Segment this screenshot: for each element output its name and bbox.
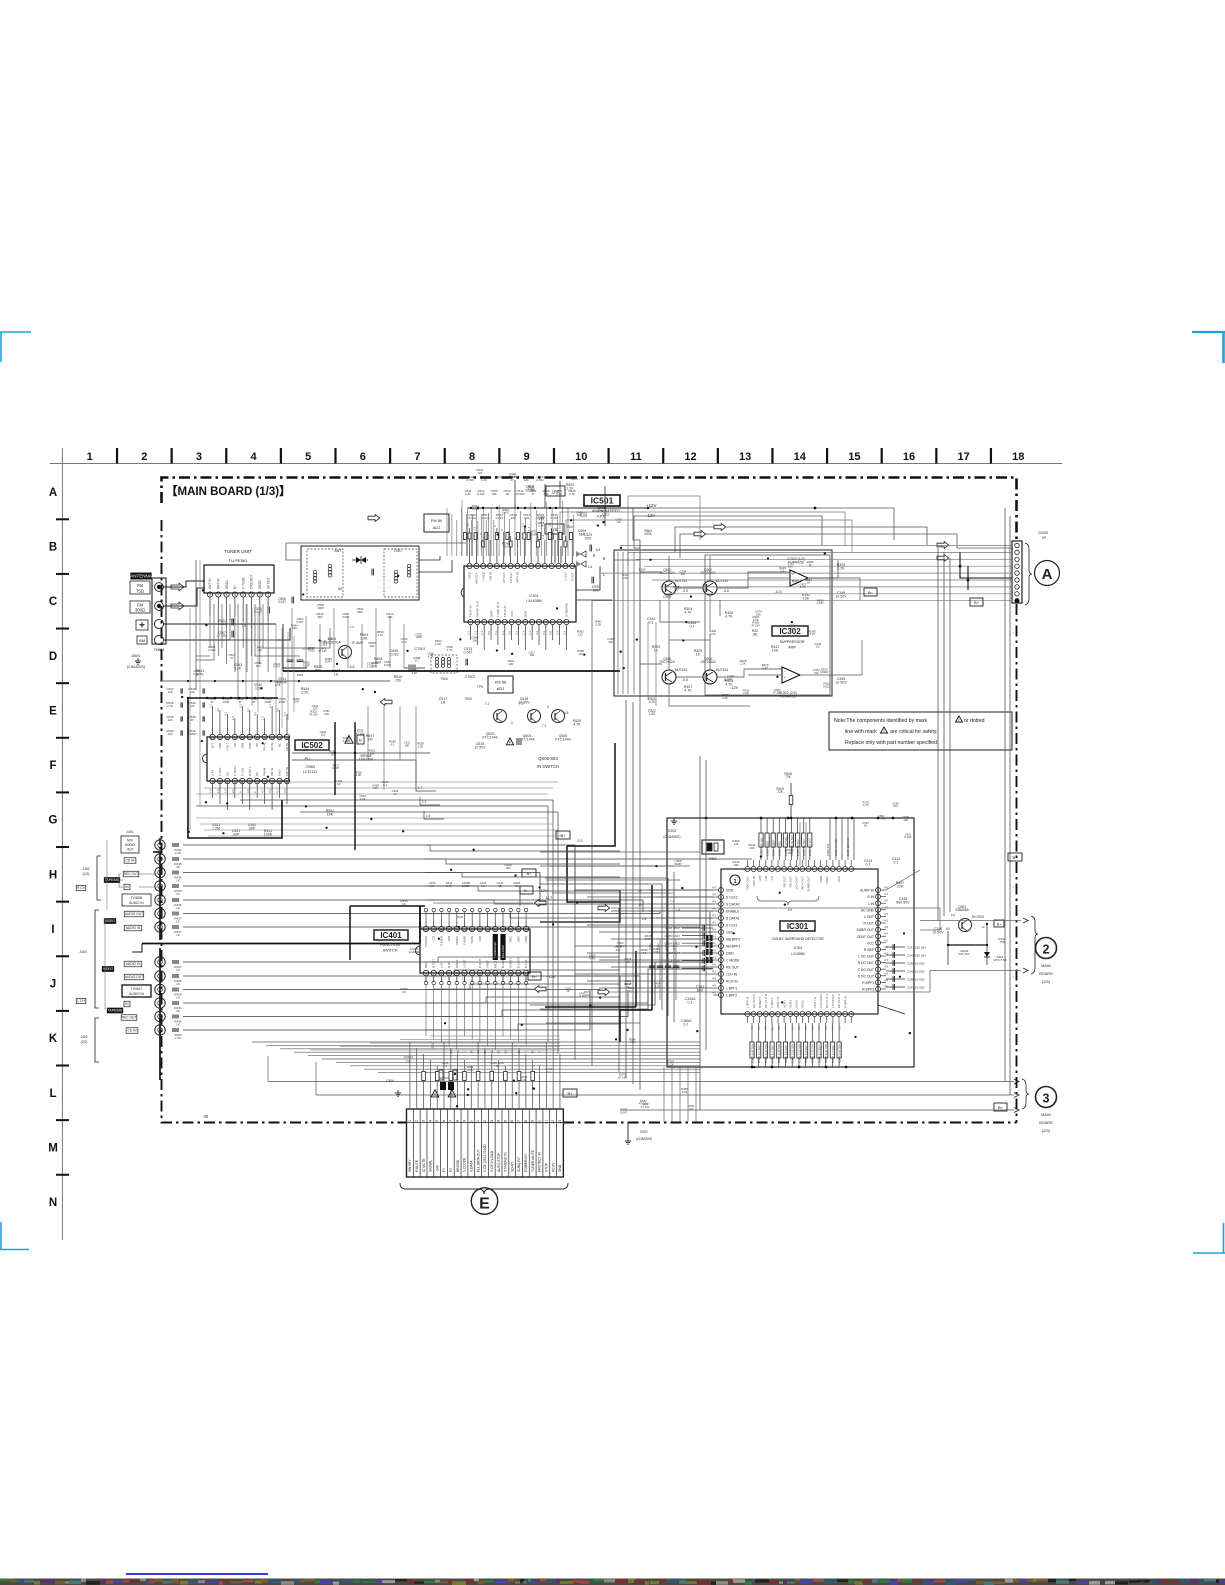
svg-text:120: 120 [292, 626, 297, 630]
svg-text:0.1: 0.1 [383, 783, 387, 787]
svg-text:3.3: 3.3 [548, 522, 552, 527]
svg-text:14: 14 [794, 451, 807, 463]
svg-text:K305 254: K305 254 [826, 843, 830, 856]
svg-text:C315 220 16V: C315 220 16V [846, 837, 850, 856]
svg-text:M: M [48, 1142, 58, 1154]
svg-text:C311 2.2 50V: C311 2.2 50V [834, 838, 838, 856]
svg-text:IC301: IC301 [794, 946, 803, 950]
svg-text:(CHASSIS): (CHASSIS) [127, 665, 145, 669]
svg-text:C344 0.47 50V: C344 0.47 50V [838, 1044, 842, 1063]
svg-text:C339 0.47 50V: C339 0.47 50V [764, 1044, 768, 1063]
svg-text:AC GND: AC GND [861, 908, 875, 912]
-12V right label [945, 584, 947, 586]
svg-text:23: 23 [558, 1120, 562, 1124]
svg-text:IN SWITCH: IN SWITCH [537, 764, 559, 769]
horizontal link wires center [196, 800, 674, 884]
svg-text:C453: C453 [664, 943, 668, 950]
svg-text:AUDIO: AUDIO [125, 843, 136, 847]
svg-text:B+: B+ [997, 923, 1002, 927]
svg-text:GND: GND [278, 770, 282, 776]
svg-text:CENT OUT: CENT OUT [857, 935, 874, 939]
B+ box label right [970, 598, 983, 606]
svg-text:PLL DATA OUT: PLL DATA OUT [476, 1149, 480, 1172]
svg-text:AP OUT: AP OUT [502, 572, 506, 583]
svg-text:0.047: 0.047 [325, 660, 332, 664]
svg-text:GND: GND [726, 952, 734, 956]
svg-text:6.8: 6.8 [350, 665, 355, 669]
bold segment C [419, 922, 421, 929]
svg-text:50V: 50V [593, 589, 600, 593]
svg-text:0.5: 0.5 [487, 631, 491, 635]
svg-text:C365 0.082: C365 0.082 [778, 841, 782, 856]
svg-text:SWITCH: SWITCH [383, 949, 398, 953]
svg-text:IC501: IC501 [591, 496, 614, 506]
svg-text:5.2: 5.2 [520, 522, 524, 527]
svg-text:22: 22 [503, 1050, 507, 1054]
svg-text:TAPE/MD: TAPE/MD [108, 1009, 123, 1013]
svg-text:AUDIO IN: AUDIO IN [126, 926, 141, 930]
svg-text:C345 4.7 50V: C345 4.7 50V [817, 1045, 821, 1063]
svg-text:VIDEO: VIDEO [455, 935, 459, 945]
svg-text:(CHASSIS): (CHASSIS) [636, 1137, 652, 1141]
svg-text:16: 16 [456, 1050, 460, 1054]
svg-text:12: 12 [497, 1050, 501, 1054]
svg-text:AM RF OUT: AM RF OUT [476, 600, 480, 617]
svg-text:SD-RY: SD-RY [510, 1161, 514, 1172]
svg-text:ST/MONO IN: ST/MONO IN [504, 1152, 508, 1172]
svg-text:0.0022: 0.0022 [820, 670, 829, 674]
rail junction [814, 507, 817, 510]
B+ tag low [563, 1089, 577, 1097]
svg-text:MO: MO [240, 742, 244, 747]
IC301 bottom capacitor bank [750, 1023, 842, 1067]
svg-text:B−: B− [868, 590, 874, 595]
svg-text:0.1: 0.1 [866, 863, 871, 867]
svg-text:VIDEO: VIDEO [103, 967, 114, 971]
svg-text:1B: 1B [441, 701, 446, 705]
svg-text:0.022: 0.022 [904, 835, 911, 839]
bold routing line 5 [567, 743, 615, 846]
svg-text:2SB668A: 2SB668A [955, 908, 969, 912]
svg-text:REC: REC [509, 935, 513, 942]
svg-text:1: 1 [408, 1120, 412, 1122]
svg-text:2.2K: 2.2K [301, 691, 309, 695]
svg-text:R BPF2: R BPF2 [862, 988, 874, 992]
svg-text:VCS2: VCS2 [795, 1000, 799, 1008]
svg-text:−: − [784, 670, 786, 674]
svg-text:L CH: L CH [77, 999, 85, 1003]
svg-text:L R DCCT: L R DCCT [831, 994, 835, 1008]
svg-text:B+: B+ [974, 600, 980, 605]
svg-text:SW 6RY: SW 6RY [408, 1159, 412, 1172]
svg-text:AUDIO IN: AUDIO IN [129, 901, 144, 905]
svg-text:-5.8: -5.8 [682, 678, 688, 682]
svg-text:1K: 1K [176, 892, 180, 896]
svg-text:C454: C454 [672, 943, 676, 950]
svg-text:VCC: VCC [867, 941, 875, 945]
svg-text:0.047: 0.047 [435, 642, 442, 646]
svg-text:C337 0.47 50V: C337 0.47 50V [750, 1044, 754, 1063]
svg-text:GND: GND [524, 935, 528, 943]
svg-text:C312 3.3 16V: C312 3.3 16V [808, 838, 812, 856]
svg-text:4.7K: 4.7K [447, 648, 453, 652]
svg-text:1000P: 1000P [188, 732, 197, 736]
svg-text:IC MUTE: IC MUTE [422, 1158, 426, 1172]
svg-text:PRAM: PRAM [263, 767, 267, 776]
svg-text:DIR: DIR [478, 935, 482, 941]
svg-text:22K: 22K [897, 885, 904, 889]
svg-text:2.3: 2.3 [556, 631, 560, 635]
svg-text:I: I [51, 924, 54, 936]
svg-text:4.7K: 4.7K [569, 492, 575, 496]
svg-text:QS05-S64: QS05-S64 [538, 756, 558, 761]
svg-text:2.2K: 2.2K [837, 567, 845, 571]
svg-text:R DC OUT: R DC OUT [858, 961, 874, 965]
svg-text:BAL.COM: BAL.COM [501, 945, 505, 958]
svg-text:L DC OUT: L DC OUT [858, 955, 874, 959]
svg-text:3.6: 3.6 [797, 1026, 801, 1030]
low pass filter block 2 [545, 524, 586, 537]
svg-text:REC OUT: REC OUT [124, 872, 139, 876]
svg-text:-11.6: -11.6 [774, 590, 781, 594]
svg-text:3.6: 3.6 [790, 1026, 794, 1030]
svg-text:1K: 1K [176, 982, 180, 986]
svg-text:4.7K: 4.7K [377, 633, 383, 637]
svg-text:120: 120 [313, 707, 318, 711]
svg-text:100: 100 [749, 846, 754, 850]
svg-text:10 50V: 10 50V [474, 746, 486, 750]
bold signal bus under IF [283, 670, 620, 672]
svg-text:100: 100 [492, 492, 497, 496]
svg-text:4-5: 4-5 [712, 893, 716, 897]
tuner-IC501 link wires [196, 604, 214, 660]
crop mark bottom-left [0, 1222, 29, 1250]
additional passive clusters [291, 603, 424, 801]
connector E series resistors [422, 1072, 535, 1081]
svg-text:47 16V: 47 16V [618, 1075, 627, 1079]
svg-text:6.8: 6.8 [508, 631, 512, 635]
svg-text:4-5: 4-5 [712, 907, 716, 911]
svg-text:C364 3300P: C364 3300P [772, 840, 776, 856]
svg-text:IC501: IC501 [529, 594, 539, 598]
svg-text:1K: 1K [176, 996, 180, 1000]
svg-text:18: 18 [524, 1120, 528, 1124]
svg-text:1M: 1M [734, 842, 739, 846]
svg-text:0.1: 0.1 [649, 621, 654, 625]
svg-text:C351 3.3 50V: C351 3.3 50V [804, 1045, 808, 1063]
svg-text:C362 6.8 50V: C362 6.8 50V [784, 1045, 788, 1063]
svg-text:ABC: ABC [516, 935, 520, 942]
svg-text:4.6: 4.6 [535, 631, 539, 635]
svg-text:0.022: 0.022 [602, 512, 609, 516]
svg-text:S DATA: S DATA [233, 766, 237, 776]
svg-text:D OUT: D OUT [248, 767, 252, 776]
svg-text:560: 560 [544, 492, 549, 496]
svg-text:1.9: 1.9 [216, 789, 220, 793]
svg-text:0.01: 0.01 [524, 516, 530, 520]
svg-text:4.7K: 4.7K [684, 611, 692, 615]
svg-text:ENABLE: ENABLE [726, 910, 740, 914]
svg-text:KTC1444: KTC1444 [555, 738, 570, 742]
svg-text:4.1: 4.1 [223, 712, 227, 716]
svg-text:OSC: OSC [394, 549, 402, 553]
svg-text:0.022: 0.022 [823, 684, 830, 688]
tuner decoupling capacitors [217, 597, 294, 639]
svg-text:4M: 4M [338, 587, 343, 591]
svg-text:0.047: 0.047 [620, 1110, 627, 1114]
ground G202 chassis [625, 1122, 652, 1144]
crop mark top-right [1192, 332, 1225, 363]
svg-text:KC.6V: KC.6V [551, 1162, 555, 1172]
svg-text:1K: 1K [696, 653, 701, 657]
svg-text:-5.8: -5.8 [682, 589, 688, 593]
wires to connector 3 [268, 1081, 1014, 1083]
svg-text:1K: 1K [807, 581, 811, 585]
grid ruler left (rows A-N) [48, 448, 69, 1240]
svg-text:C363 0.082: C363 0.082 [766, 841, 770, 856]
svg-text:CD IN: CD IN [126, 859, 136, 863]
svg-text:C352 0.15 50V: C352 0.15 50V [797, 1044, 801, 1063]
svg-text:R BPF B: R BPF B [843, 996, 847, 1008]
svg-text:1.6: 1.6 [426, 814, 431, 818]
svg-text:H: H [49, 869, 57, 881]
svg-text:(CHASSIS): (CHASSIS) [663, 835, 680, 839]
mute block frame [614, 550, 832, 696]
QS05 label [537, 756, 559, 769]
svg-text:0.1: 0.1 [688, 1001, 693, 1005]
svg-text:TAPE: TAPE [470, 936, 474, 944]
svg-text:F OUT: F OUT [570, 572, 574, 581]
svg-text:47 16V: 47 16V [309, 712, 318, 716]
IC401 reference label [374, 930, 408, 953]
svg-text:1K: 1K [176, 968, 180, 972]
svg-text:0.047: 0.047 [464, 651, 473, 655]
svg-text:X IN: X IN [211, 770, 215, 776]
svg-text:MPX IN: MPX IN [516, 572, 520, 582]
IC302 left vertical bundle [618, 552, 640, 694]
miscellaneous component labels [194, 468, 912, 1114]
svg-text:4-5: 4-5 [712, 970, 716, 974]
svg-text:LCH IN: LCH IN [726, 973, 738, 977]
svg-text:13: 13 [490, 1120, 494, 1124]
svg-text:AUDIO IN: AUDIO IN [126, 962, 141, 966]
safety note box [829, 712, 1012, 750]
svg-text:560P: 560P [674, 862, 681, 866]
svg-text:5: 5 [305, 451, 311, 463]
svg-text:ANT: ANT [334, 549, 342, 553]
bold routing line 7 [349, 906, 351, 960]
svg-text:4.7K: 4.7K [684, 689, 692, 693]
svg-text:NB-BPF1: NB-BPF1 [726, 945, 740, 949]
svg-text:4-5: 4-5 [884, 985, 888, 989]
svg-text:104: 104 [167, 718, 172, 722]
svg-text:21: 21 [483, 1050, 487, 1054]
+12V rail wire [633, 508, 894, 540]
IC302 internal wires [640, 556, 838, 677]
svg-text:TUNE OUT: TUNE OUT [496, 602, 500, 618]
registration line bottom [126, 1573, 268, 1575]
svg-text:13: 13 [490, 1050, 494, 1054]
svg-text:72K: 72K [777, 790, 784, 794]
svg-text:R440: R440 [457, 915, 464, 919]
power rail nest 1 [675, 527, 927, 552]
svg-text:R OUT: R OUT [863, 922, 874, 926]
svg-text:7.2: 7.2 [485, 702, 490, 706]
pin1 marker circle [730, 875, 740, 885]
svg-text:4-5: 4-5 [804, 1026, 808, 1030]
svg-text:12: 12 [483, 1120, 487, 1124]
svg-text:!: ! [883, 729, 884, 733]
svg-text:10K: 10K [772, 649, 779, 653]
svg-text:6.8: 6.8 [564, 711, 569, 715]
svg-text:47: 47 [252, 700, 256, 704]
svg-text:28: 28 [449, 1050, 453, 1054]
svg-text:C358 10 50V: C358 10 50V [907, 977, 925, 981]
svg-text:3.6: 3.6 [837, 1026, 841, 1030]
power rail nest 2 [680, 534, 1013, 558]
B+ tag mid 3 [1008, 853, 1022, 861]
svg-text:0.1: 0.1 [816, 645, 820, 649]
svg-text:B.AAT: B.AAT [501, 959, 505, 968]
svg-text:TUNER-MUTE: TUNER-MUTE [531, 1149, 535, 1172]
svg-text:1K: 1K [334, 673, 339, 677]
svg-text:VCC: VCC [510, 610, 514, 617]
svg-text:4-5: 4-5 [884, 958, 888, 962]
svg-text:DC OUT 2: DC OUT 2 [825, 994, 829, 1008]
svg-text:10K: 10K [733, 863, 738, 867]
svg-text:12: 12 [684, 451, 696, 463]
svg-text:5-2: 5-2 [824, 1026, 828, 1030]
svg-text:PDR: PDR [248, 743, 252, 749]
svg-text:C317 220 16V: C317 220 16V [907, 945, 926, 949]
svg-text:1K: 1K [176, 1023, 180, 1027]
wires into connector E [410, 1042, 560, 1109]
op-amps IC302 suppressor [752, 557, 848, 699]
svg-text:1.0: 1.0 [350, 625, 354, 629]
svg-text:15: 15 [848, 451, 860, 463]
svg-text:S.CLOCK: S.CLOCK [463, 1157, 467, 1172]
svg-text:10K: 10K [472, 638, 477, 642]
svg-text:100P: 100P [264, 700, 271, 704]
svg-text:100: 100 [630, 1040, 635, 1044]
svg-text:120: 120 [509, 662, 514, 666]
R channel arrow right [534, 986, 546, 993]
svg-text:B+: B+ [526, 871, 532, 876]
svg-text:BR100K: BR100K [456, 1159, 460, 1172]
IC401 bottom pin drops [426, 985, 526, 1050]
svg-text:Replace only with part number: Replace only with part number specified. [845, 740, 938, 746]
svg-text:120: 120 [372, 664, 377, 668]
svg-text:100: 100 [585, 993, 590, 997]
rail arrow 2 [694, 531, 706, 538]
svg-text:LC4966: LC4966 [409, 950, 420, 954]
svg-text:PD: PD [233, 743, 237, 747]
svg-text:4-5: 4-5 [712, 963, 716, 967]
rail arrow 4 [937, 555, 949, 562]
svg-text:2.2K: 2.2K [743, 691, 749, 695]
svg-text:100P: 100P [303, 663, 310, 667]
svg-text:3: 3 [196, 451, 202, 463]
svg-text:1K: 1K [864, 824, 868, 828]
svg-text:AM: AM [139, 638, 145, 643]
svg-text:1K: 1K [176, 1009, 180, 1013]
svg-text:UF OUT: UF OUT [266, 577, 270, 589]
svg-text:4-5: 4-5 [712, 900, 716, 904]
svg-text:B.DATA: B.DATA [516, 958, 520, 968]
svg-text:2.2K: 2.2K [356, 773, 362, 777]
svg-text:S DATA2: S DATA2 [726, 903, 740, 907]
svg-text:4-5: 4-5 [884, 965, 888, 969]
svg-text:B+: B+ [1012, 855, 1018, 860]
diag wire IC301 corner [878, 1005, 905, 1014]
svg-text:100: 100 [608, 640, 613, 644]
svg-text:F1: F1 [442, 1168, 446, 1172]
svg-text:100P: 100P [317, 606, 324, 610]
C529 C530 caps [589, 545, 591, 552]
svg-text:AUDIO OUT: AUDIO OUT [125, 975, 143, 979]
svg-text:MUTING: MUTING [675, 579, 688, 583]
svg-text:R RECT: R RECT [758, 997, 762, 1008]
svg-text:16: 16 [903, 451, 915, 463]
svg-text:-12V: -12V [730, 685, 739, 690]
svg-text:B+: B+ [560, 833, 566, 838]
svg-text:1K: 1K [515, 884, 519, 888]
svg-text:3.3: 3.3 [472, 526, 476, 531]
svg-text:0.1: 0.1 [684, 1023, 689, 1027]
svg-text:8: 8 [469, 451, 475, 463]
wire chassis bus [137, 663, 139, 665]
svg-text:T REF: T REF [825, 876, 829, 885]
IC302 area component labels [639, 560, 829, 681]
svg-text:+: + [784, 676, 786, 680]
svg-text:DH REG: DH REG [972, 915, 985, 919]
svg-text:7.2: 7.2 [473, 631, 477, 635]
+12V tag A [520, 886, 552, 900]
svg-text:2.2K: 2.2K [596, 622, 602, 626]
svg-text:10 50V: 10 50V [515, 492, 524, 496]
svg-text:-5.8: -5.8 [723, 589, 729, 593]
svg-text:MUTING: MUTING [716, 668, 729, 672]
svg-text:E: E [49, 705, 57, 717]
svg-text:R BPF1: R BPF1 [862, 981, 874, 985]
svg-text:9.6: 9.6 [951, 913, 956, 917]
svg-text:1.9: 1.9 [223, 789, 227, 793]
svg-text:T RED: T RED [481, 571, 485, 581]
svg-text:16: 16 [510, 1120, 514, 1124]
band filler wires [540, 852, 700, 1023]
phono jack column J402/J403 [153, 838, 165, 1080]
svg-text:TUNER-REC: TUNER-REC [493, 942, 497, 958]
arrow mid right2 [598, 989, 610, 996]
svg-text:R OUT: R OUT [478, 959, 482, 969]
svg-text:VCR1: VCR1 [782, 1000, 786, 1008]
wire IC502 right 2 [292, 760, 416, 783]
bold vertical F2 [354, 722, 356, 850]
IC301 left capacitor stack [662, 891, 713, 1027]
svg-text:47: 47 [230, 656, 234, 660]
IC301 top capacitor bank [759, 818, 900, 867]
svg-text:R CH: R CH [77, 886, 86, 890]
svg-text:05: 05 [204, 1114, 209, 1119]
B+ tag mid 1 [556, 831, 570, 839]
svg-text:4: 4 [251, 451, 258, 463]
svg-text:11: 11 [630, 451, 642, 463]
svg-text:or dotted: or dotted [964, 718, 985, 724]
svg-text:LA1838M: LA1838M [526, 599, 541, 603]
svg-text:B+: B+ [998, 1105, 1004, 1110]
bold segment A [635, 951, 637, 1007]
rail arrow 1 [714, 524, 726, 531]
